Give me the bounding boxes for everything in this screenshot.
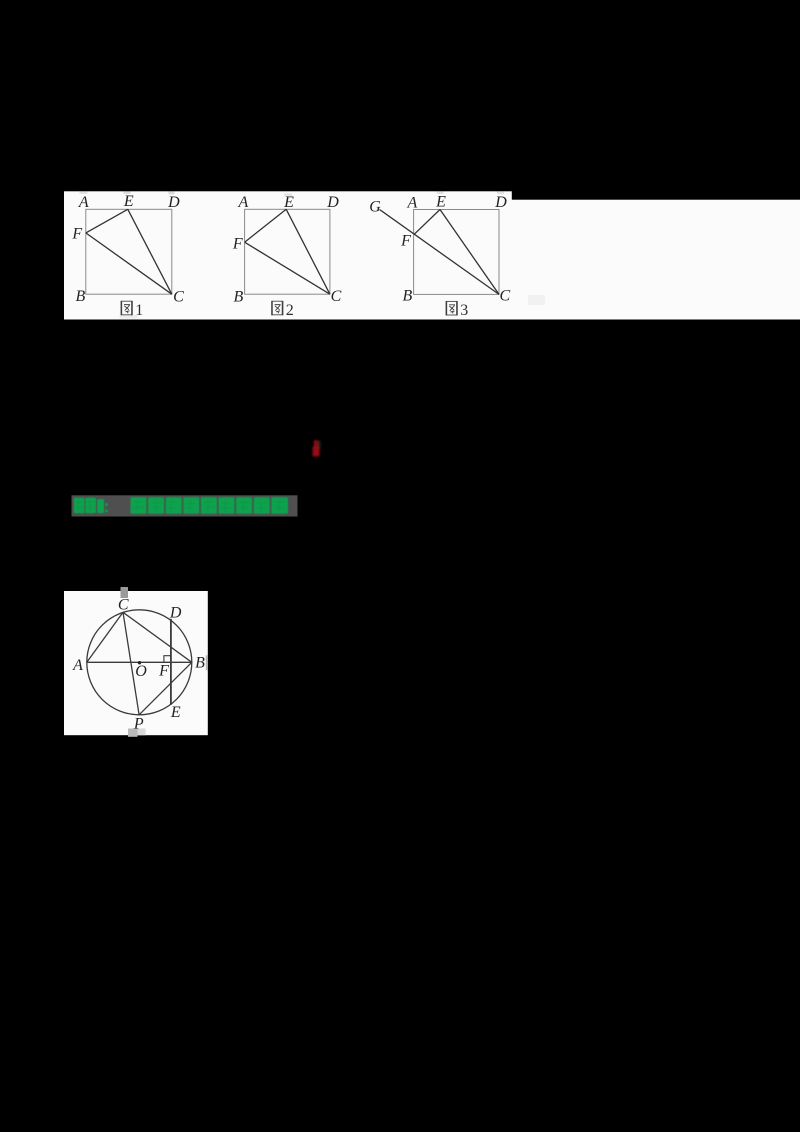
line PB xyxy=(139,662,192,715)
green banner gray strip xyxy=(72,495,298,516)
line FC fig2 xyxy=(245,242,330,294)
banner glyph 模 xyxy=(74,498,108,514)
faint smudge below caption 1 xyxy=(120,315,138,319)
svg-text:F: F xyxy=(71,226,82,243)
svg-text:C: C xyxy=(499,288,510,305)
white box circle figure xyxy=(64,591,208,735)
caption 图2 xyxy=(272,301,294,319)
faint patch in right extension xyxy=(528,295,545,305)
line EF fig3 xyxy=(414,210,440,235)
svg-text:A: A xyxy=(238,194,249,211)
svg-text:F: F xyxy=(158,663,169,680)
square ABCD fig2 xyxy=(245,209,330,294)
faint smudge above fig1 E xyxy=(124,192,131,194)
svg-text:E: E xyxy=(435,193,446,210)
black notch top-right of band xyxy=(512,191,800,200)
line EC fig3 xyxy=(440,210,499,295)
svg-text:B: B xyxy=(403,288,413,305)
svg-text:F: F xyxy=(232,236,243,253)
line AB xyxy=(87,661,192,663)
line EC fig1 xyxy=(128,209,172,294)
svg-text:F: F xyxy=(400,233,411,250)
svg-text:2: 2 xyxy=(286,302,294,319)
svg-text:P: P xyxy=(133,715,144,732)
svg-text:C: C xyxy=(118,597,129,614)
faint smudge above fig1 A xyxy=(80,192,88,194)
chord DE xyxy=(170,619,172,705)
gray speck below P xyxy=(128,729,138,737)
center dot O xyxy=(138,661,141,664)
faint smudge above fig3 E xyxy=(437,192,444,194)
svg-text:A: A xyxy=(72,657,83,674)
svg-text:A: A xyxy=(407,195,418,212)
svg-text:B: B xyxy=(195,654,205,671)
gray speck above C xyxy=(121,587,129,598)
white figure band xyxy=(64,191,800,319)
svg-text:3: 3 xyxy=(460,302,468,319)
faint smudge above fig3 D xyxy=(497,192,504,195)
red mark xyxy=(313,440,321,456)
svg-text:E: E xyxy=(170,704,181,721)
line FC fig1 xyxy=(86,233,172,294)
gray bar right edge near B xyxy=(206,655,208,670)
line EC fig2 xyxy=(286,209,330,294)
svg-text:D: D xyxy=(494,194,507,211)
line CP xyxy=(123,612,139,715)
svg-text:1: 1 xyxy=(135,302,143,319)
line GC fig3 through F xyxy=(380,210,500,295)
svg-text:O: O xyxy=(135,663,147,680)
line AC xyxy=(87,612,123,662)
caption 图3 xyxy=(446,301,468,319)
circle O xyxy=(87,610,192,715)
square ABCD fig3 xyxy=(414,210,499,295)
faint smudge above fig1 D xyxy=(169,192,175,195)
caption 图1 xyxy=(121,301,143,319)
svg-text:G: G xyxy=(369,198,381,215)
banner group2 glyphs xyxy=(131,497,289,514)
svg-text:B: B xyxy=(76,288,86,305)
line FE fig2 xyxy=(245,209,287,242)
banner glyph texture slits xyxy=(75,499,285,512)
svg-text:C: C xyxy=(331,288,342,305)
svg-text:D: D xyxy=(169,604,182,621)
faint smudge above fig2 E xyxy=(284,194,292,197)
svg-text:D: D xyxy=(167,194,180,211)
right angle mark at F xyxy=(164,656,171,663)
square ABCD fig1 xyxy=(86,209,172,294)
svg-text:B: B xyxy=(234,288,244,305)
line CB xyxy=(123,612,192,662)
svg-text:C: C xyxy=(173,288,184,305)
svg-text:A: A xyxy=(78,194,89,211)
svg-text:E: E xyxy=(283,194,294,211)
svg-text:E: E xyxy=(123,193,134,210)
svg-text:D: D xyxy=(326,194,339,211)
line FE fig1 xyxy=(86,209,128,233)
